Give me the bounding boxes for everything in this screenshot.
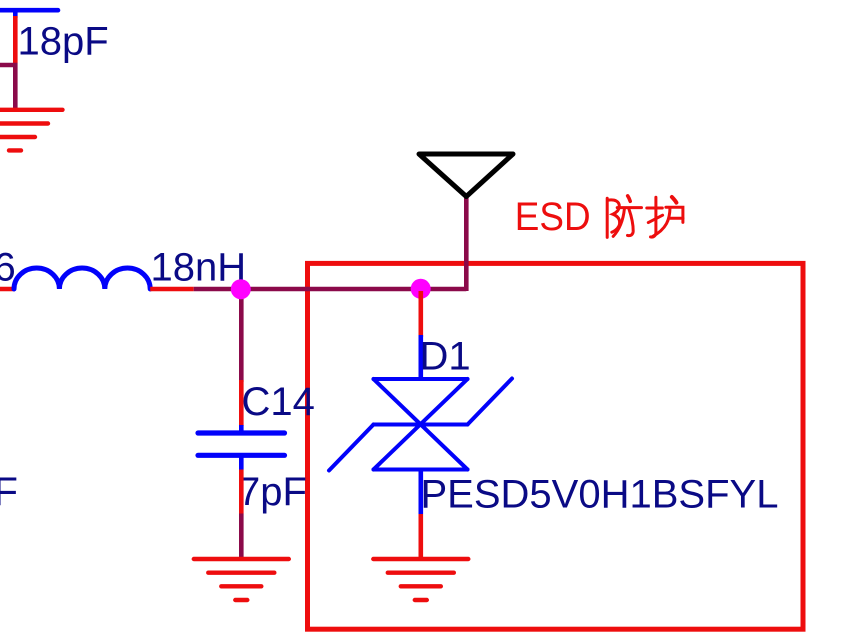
D1 top lead (blue) [418, 335, 423, 379]
wire C14 branch (maroon vertical) [239, 289, 244, 382]
svg-text:18pF: 18pF [18, 19, 109, 63]
pin of L6 (red, right) [150, 287, 194, 292]
ground symbol (top left) [0, 110, 63, 151]
ground symbol (under C14) [194, 559, 289, 600]
junction node 2 [411, 279, 431, 299]
svg-text:PESD5V0H1BSFYL: PESD5V0H1BSFYL [421, 473, 779, 517]
wire to ground (maroon, top-left) [0, 65, 15, 110]
D1 bottom lead (blue) [418, 470, 423, 515]
TVS diode D1 symbol [329, 379, 512, 471]
hanzi 护 (hand drawn strokes) [647, 197, 683, 237]
capacitor C13 lead stub [13, 9, 18, 18]
ESD protection box outline [308, 263, 804, 629]
svg-text:F: F [0, 470, 18, 514]
pin of D1 (red, top) [418, 291, 423, 337]
hanzi 防 (hand drawn strokes) [607, 196, 641, 238]
wire RF net (maroon horizontal) [194, 287, 467, 292]
wire from antenna (maroon vertical) [464, 196, 469, 291]
pin of C14 (red, top) [239, 380, 244, 426]
wire (red pin stub, left of inductor) [0, 287, 15, 292]
pin of C13 (red) [13, 16, 18, 63]
svg-text:C14: C14 [242, 380, 315, 424]
ground symbol (under D1) [373, 559, 468, 600]
pin of C14 (red, bottom) [239, 470, 244, 514]
svg-text:7pF: 7pF [238, 470, 307, 514]
junction node 1 [231, 279, 251, 299]
svg-text:ESD: ESD [515, 195, 591, 239]
inductor L6 coil [14, 268, 150, 289]
capacitor C13 (18pF, cut off at left) bottom plate [0, 8, 58, 13]
antenna symbol [419, 154, 513, 197]
svg-text:D1: D1 [420, 335, 471, 379]
pin of D1 (red, bottom) [418, 514, 423, 559]
capacitor C14 symbol [198, 425, 285, 470]
wire C14 to ground (maroon) [239, 514, 244, 560]
svg-text:18nH: 18nH [151, 246, 247, 290]
